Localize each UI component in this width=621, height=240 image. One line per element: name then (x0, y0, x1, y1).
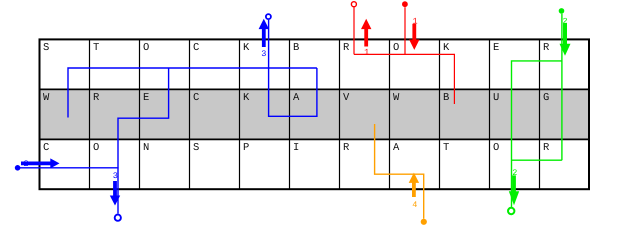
svg-text:T: T (93, 42, 99, 54)
green thick down arrow (top) (560, 23, 571, 56)
svg-text:O: O (493, 142, 499, 154)
svg-text:P: P (243, 142, 249, 154)
svg-text:W: W (43, 92, 50, 104)
blue end ring (bottom) (115, 215, 121, 221)
svg-text:T: T (443, 142, 449, 154)
grid outer border (40, 39, 590, 189)
red end ring (top) (351, 2, 356, 7)
red thick up arrow (361, 19, 371, 47)
red labels (364, 17, 418, 58)
svg-text:R: R (343, 42, 350, 54)
row 1 letters: STOCKBROKER (43, 42, 550, 54)
grid inner column lines (90, 40, 540, 190)
svg-text:2: 2 (24, 159, 29, 169)
svg-text:V: V (343, 92, 350, 104)
orange word path (375, 124, 424, 219)
svg-text:E: E (143, 92, 149, 104)
green labels (512, 17, 567, 179)
svg-text:R: R (93, 92, 100, 104)
svg-text:K: K (443, 42, 450, 54)
svg-text:A: A (293, 92, 300, 104)
svg-text:1: 1 (364, 47, 369, 57)
blue start dot (left) (15, 165, 21, 171)
green start dot (top) (559, 8, 565, 14)
svg-text:R: R (543, 142, 550, 154)
svg-text:C: C (193, 42, 199, 54)
svg-text:2: 2 (563, 17, 568, 27)
svg-text:I: I (293, 142, 299, 154)
svg-text:2: 2 (512, 168, 517, 178)
orange thick up arrow (409, 173, 419, 197)
svg-text:4: 4 (412, 200, 417, 210)
svg-text:K: K (243, 92, 250, 104)
gray middle row band (40, 90, 589, 138)
svg-text:A: A (393, 142, 400, 154)
svg-text:B: B (443, 92, 449, 104)
green end ring (bottom) (508, 208, 514, 214)
svg-text:W: W (393, 92, 400, 104)
green thick down arrow (bottom) (509, 175, 519, 205)
blue thick down arrow (110, 181, 120, 206)
row 2 letters: WRECKAVWBUG (43, 92, 549, 104)
svg-text:C: C (193, 92, 199, 104)
svg-text:R: R (543, 42, 550, 54)
svg-text:G: G (543, 92, 549, 104)
blue thick right arrow (21, 158, 60, 168)
blue word paths (18, 20, 317, 214)
blue end ring (top) (266, 14, 271, 19)
svg-text:K: K (243, 42, 250, 54)
svg-text:N: N (143, 142, 149, 154)
svg-text:1: 1 (413, 17, 418, 27)
green word path (512, 14, 562, 208)
blue thick up arrow (259, 19, 269, 47)
red word path (354, 7, 454, 104)
svg-text:U: U (493, 92, 499, 104)
red start dot (top) (402, 1, 408, 7)
svg-text:3: 3 (113, 171, 118, 181)
svg-text:B: B (293, 42, 299, 54)
svg-text:R: R (343, 142, 350, 154)
svg-text:3: 3 (261, 49, 266, 59)
svg-text:S: S (193, 142, 199, 154)
svg-text:C: C (43, 142, 49, 154)
row 3 letters: CONSPIRATOR (43, 142, 550, 154)
svg-text:S: S (43, 42, 49, 54)
blue labels (24, 49, 267, 181)
grid inner row lines (40, 89, 590, 139)
svg-text:O: O (143, 42, 149, 54)
red thick down arrow (409, 24, 419, 50)
svg-text:O: O (393, 42, 399, 54)
svg-text:E: E (493, 42, 499, 54)
svg-text:O: O (93, 142, 99, 154)
orange start dot (bottom) (421, 219, 427, 225)
